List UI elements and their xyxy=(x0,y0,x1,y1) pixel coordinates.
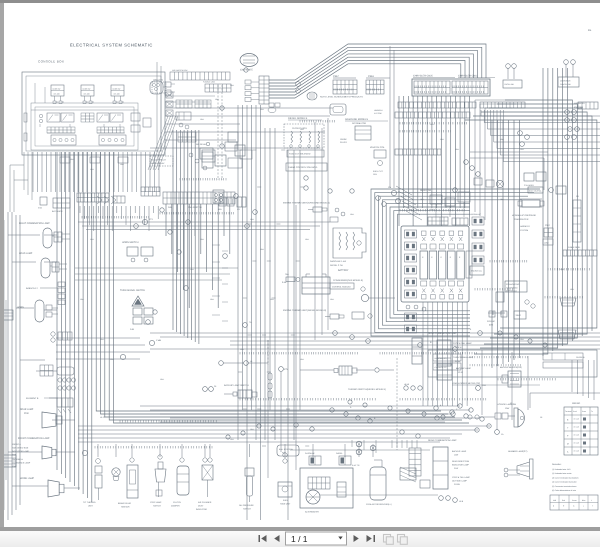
svg-text:1 / 1: 1 / 1 xyxy=(291,534,308,544)
